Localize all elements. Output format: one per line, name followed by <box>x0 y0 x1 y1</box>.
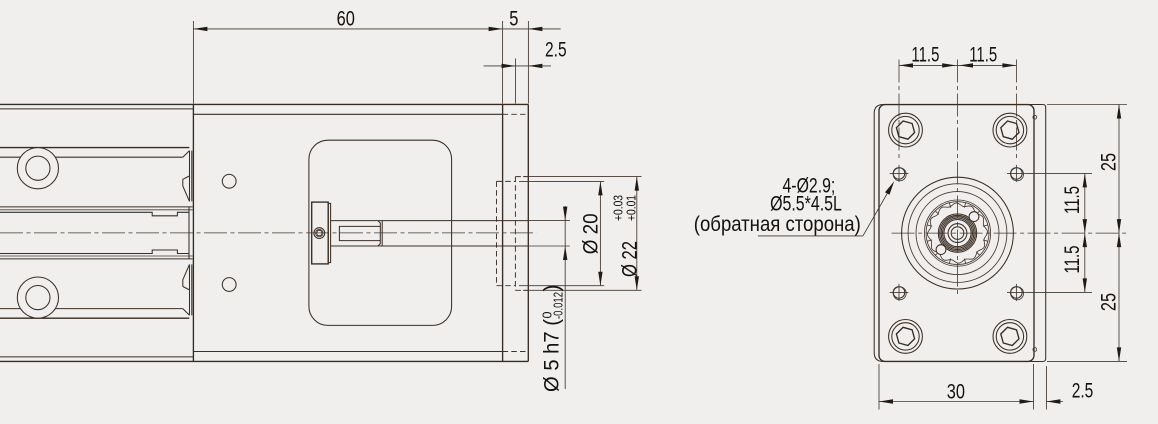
svg-text:Ø 20: Ø 20 <box>579 213 603 254</box>
guide rod upper: end cap <box>183 151 192 202</box>
knurled hub band <box>938 214 976 252</box>
arrow D22 bottom <box>635 276 639 290</box>
edge pin lower <box>1033 348 1037 352</box>
cylinder mid: lower inner line with notch <box>0 250 189 254</box>
small hole TL <box>890 165 909 182</box>
arrow 2.5 right <box>528 64 542 68</box>
bearing outer race edge 1 <box>924 200 990 266</box>
rail/body bottom edge <box>0 360 528 362</box>
arrow 2.5 left <box>502 64 516 68</box>
end plate right edge <box>527 104 529 361</box>
shaft center circle <box>951 227 964 240</box>
svg-text:2.5: 2.5 <box>1072 378 1094 402</box>
arrow 2.5 bottom <box>1046 399 1060 403</box>
rail top inner line <box>0 108 193 110</box>
body hole lower <box>222 278 236 292</box>
outer dim line 25/25 <box>1118 105 1120 362</box>
dim line D20 <box>599 181 601 285</box>
guide rod upper: nut circle inner <box>26 156 50 180</box>
body inner top line <box>193 113 502 115</box>
bearing bore D20 <box>908 184 1007 283</box>
dim line 60 and 5 <box>193 28 560 30</box>
arrow 11.5 row1 <box>1083 173 1087 187</box>
arrow 30 left <box>879 399 893 403</box>
svg-text:+0.03: +0.03 <box>612 195 626 221</box>
screw hex socket <box>316 231 322 236</box>
retaining ring wavy circle <box>928 203 988 263</box>
rod bottom extension line <box>528 245 570 247</box>
bolt TR outer <box>993 113 1027 147</box>
arrow 11.5 row2 <box>1083 278 1087 292</box>
svg-text:): ) <box>540 284 564 291</box>
body inner bottom line <box>193 351 502 353</box>
rod slot <box>339 226 380 240</box>
arrow D22 top <box>635 177 639 191</box>
rod end chamfer <box>378 221 382 246</box>
arrow 25 top <box>1117 105 1121 119</box>
centerline left view <box>0 232 537 234</box>
arrow pair at center outer <box>1117 219 1121 247</box>
dim line 30 <box>879 401 1034 403</box>
body behind flange <box>874 105 1045 362</box>
ext line 30 left <box>878 364 880 410</box>
bearing outer race edge 2 <box>926 202 989 265</box>
arrow top dim center left <box>942 63 956 67</box>
small hole TR <box>1007 165 1026 182</box>
ext line 60 right / 5 left <box>502 21 504 104</box>
bolt BL outer <box>889 320 923 354</box>
leader arrowhead <box>885 181 894 194</box>
arrow D20 bottom <box>598 272 602 286</box>
ext lines D20 <box>519 181 604 285</box>
bolt TR hex <box>1001 121 1019 139</box>
ext line 5 right <box>527 21 529 104</box>
body right edge <box>502 104 504 361</box>
ext line 2.5 left <box>515 59 517 104</box>
svg-text:-0.012: -0.012 <box>552 292 566 319</box>
guide rod lower: chamfer line <box>0 308 183 310</box>
hidden bore D20 <box>497 181 516 285</box>
svg-text:11.5: 11.5 <box>1060 246 1084 274</box>
cylinder mid: top second line <box>0 209 193 211</box>
guide rod upper: chamfer line <box>0 156 183 158</box>
edge pin upper <box>1033 115 1037 119</box>
guide rod upper: nut circle outer <box>17 148 58 189</box>
bolt TR inner <box>996 116 1023 143</box>
bearing seat circle <box>916 192 999 275</box>
screw head outer <box>314 228 325 239</box>
column centerline right <box>1015 60 1017 159</box>
ext line 30 right <box>1033 364 1035 410</box>
svg-text:5: 5 <box>509 7 518 31</box>
hidden bore D22 <box>515 177 528 291</box>
dim line 2.5 <box>484 65 551 67</box>
arrow 25 bottom <box>1117 347 1121 361</box>
cylinder mid: bottom second line <box>0 255 193 257</box>
screw head inner <box>316 229 323 236</box>
small hole BL <box>890 284 909 301</box>
bolt TL inner <box>892 116 919 143</box>
bolt BR outer <box>993 320 1027 354</box>
column centerline left <box>898 60 900 159</box>
ext line 11.5 row2 <box>1026 291 1092 293</box>
bearing recess D22 <box>902 177 1014 289</box>
arrow top dim far right <box>1002 63 1016 67</box>
svg-text:60: 60 <box>337 7 355 31</box>
svg-text:30: 30 <box>947 379 965 403</box>
clamp block <box>312 202 329 264</box>
svg-text:2.5: 2.5 <box>545 37 567 61</box>
svg-text:11.5: 11.5 <box>1060 186 1084 214</box>
leader line <box>863 186 892 236</box>
arrow top dim center right <box>959 63 973 67</box>
inner dim line 11.5/11.5 <box>1084 173 1086 292</box>
bolt TL hex <box>896 121 914 139</box>
svg-text:(обратная сторона): (обратная сторона) <box>694 212 861 236</box>
rail/body top edge <box>0 103 528 105</box>
svg-text:Ø 22: Ø 22 <box>617 241 641 277</box>
small hole BR <box>1007 284 1026 301</box>
arrow 30 right <box>1020 399 1034 403</box>
bolt BR hex <box>1001 327 1019 345</box>
svg-text:11.5: 11.5 <box>911 43 939 67</box>
clamp block step <box>328 203 330 262</box>
dim line D22 <box>636 177 638 291</box>
piston rod bottom edge <box>331 245 529 247</box>
arrow pair at center inner <box>1083 219 1087 247</box>
ext line 25 bottom <box>1047 360 1127 362</box>
arrow 60 right <box>489 27 503 31</box>
arrow D5 top <box>563 207 567 221</box>
svg-text:+0.01: +0.01 <box>625 195 639 221</box>
dim line D5 <box>564 206 566 389</box>
arrow D5 bottom <box>563 246 567 260</box>
hub circle <box>948 224 967 243</box>
guide rod upper: top edge <box>0 147 189 149</box>
ext line 60 left <box>192 21 194 104</box>
svg-text:25: 25 <box>1096 293 1120 311</box>
ring eye hole upper <box>969 212 979 222</box>
note underline <box>758 235 863 237</box>
ext lines D22 <box>523 177 642 291</box>
bolt TL outer <box>889 113 923 147</box>
ring eye hole lower <box>936 245 946 255</box>
arrow D20 top <box>598 181 602 195</box>
guide rod lower: nut circle outer <box>17 277 58 318</box>
retaining ring ticks <box>927 203 988 264</box>
piston rod top edge <box>331 220 529 222</box>
rail bottom inner line <box>0 356 193 358</box>
horizontal centerline <box>892 232 1127 234</box>
cylinder mid: upper inner line with notch <box>0 212 189 216</box>
vertical centerline <box>957 60 959 298</box>
cylinder mid: bottom edge <box>0 258 193 260</box>
svg-text:Ø 5 h7 (: Ø 5 h7 ( <box>540 319 564 392</box>
top dim line 11.5/11.5 <box>899 64 1016 66</box>
guide rod lower: end cap <box>183 264 192 315</box>
ext line 11.5 row1 <box>1026 172 1092 174</box>
arrow 60 left <box>193 27 207 31</box>
body left edge <box>192 104 194 361</box>
rod top extension line <box>528 220 570 222</box>
ext line 25 top <box>1047 104 1127 106</box>
bolt BL inner <box>892 323 919 350</box>
svg-text:25: 25 <box>1096 153 1120 171</box>
guide rod lower: nut circle inner <box>26 286 50 310</box>
svg-text:11.5: 11.5 <box>969 43 997 67</box>
cylinder mid: end double line <box>188 207 190 259</box>
body inner bottom hidden continuation <box>503 351 527 353</box>
arrow 5 right <box>528 27 542 31</box>
guide rod lower: bottom edge <box>0 317 189 319</box>
bolt BR inner <box>996 323 1023 350</box>
cylinder mid: top edge <box>0 206 193 208</box>
arrow top dim far left <box>899 63 913 67</box>
dim line 2.5 tail <box>1046 401 1063 403</box>
rounded slot on body face <box>309 140 452 325</box>
ext line 2.5 bottom right <box>1045 366 1047 410</box>
flange plate <box>879 105 1034 362</box>
body hole upper <box>222 174 236 188</box>
bolt BL hex <box>896 327 914 345</box>
body inner top hidden continuation <box>503 113 529 115</box>
